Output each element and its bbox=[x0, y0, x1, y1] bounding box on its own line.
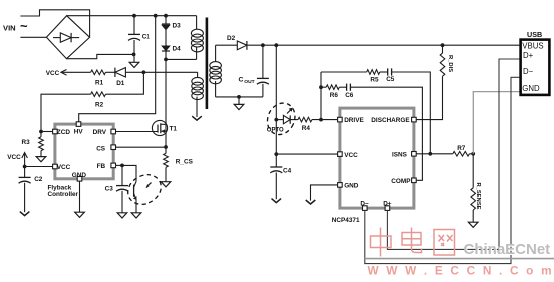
node secondary ground junction bbox=[237, 95, 241, 99]
wire drain vertical bbox=[165, 59, 167, 147]
svg-text:ChinaECNet: ChinaECNet bbox=[464, 241, 551, 258]
svg-text:C4: C4 bbox=[283, 167, 292, 174]
ground under R3 bbox=[40, 151, 42, 157]
node DRIVE junction bbox=[319, 118, 323, 122]
svg-text:FB: FB bbox=[97, 163, 106, 170]
transformer auxiliary winding bbox=[192, 77, 204, 85]
ground under R_SENSE bbox=[472, 210, 474, 222]
ground under R_CS bbox=[165, 167, 167, 181]
node D1/R2/aux junction bbox=[142, 70, 146, 74]
svg-text:CS: CS bbox=[96, 145, 106, 152]
wire aux bottom lead bbox=[196, 97, 198, 117]
op-amp U2 NCP4371 box bbox=[340, 108, 414, 208]
svg-text:DRV: DRV bbox=[93, 129, 107, 136]
resistor R3 bbox=[40, 132, 42, 137]
node C4 junction bbox=[274, 152, 278, 156]
capacitor C2 bbox=[24, 167, 26, 178]
resistor R_SENSE bbox=[472, 154, 474, 188]
svg-text:ISNS: ISNS bbox=[392, 152, 408, 159]
wire R4 to DRIVE bbox=[312, 119, 338, 121]
svg-text:R1: R1 bbox=[95, 80, 104, 87]
wire DRV to T1 gate bbox=[116, 131, 159, 133]
wire ISNS to R7 bbox=[416, 153, 453, 155]
ground arrow under C2 bbox=[20, 212, 30, 216]
svg-text:VCC: VCC bbox=[57, 164, 71, 171]
wire opto/VCC vertical bbox=[275, 45, 277, 167]
node top rail junction HV bbox=[154, 14, 158, 18]
wire DISCHARGE to R_DIS bbox=[416, 76, 442, 119]
capacitor C_OUT bbox=[261, 43, 265, 47]
svg-text:C6: C6 bbox=[345, 92, 354, 99]
svg-text:C3: C3 bbox=[105, 186, 114, 193]
svg-text:VCC: VCC bbox=[46, 70, 60, 77]
pin VCC NCP bbox=[338, 152, 343, 157]
svg-text:GND: GND bbox=[72, 172, 87, 179]
wire FB to C3 and opto bbox=[116, 164, 123, 166]
svg-text:C5: C5 bbox=[386, 76, 395, 83]
pin D- NCP bbox=[363, 206, 368, 211]
node ISNS/C5 junction bbox=[428, 152, 432, 156]
bridge rectifier internal diode bbox=[53, 37, 60, 39]
ground under flyback GND bbox=[79, 181, 81, 212]
svg-text:R3: R3 bbox=[22, 139, 31, 146]
svg-text:NCP4371: NCP4371 bbox=[332, 217, 360, 224]
pin VCC flyback bbox=[53, 164, 58, 169]
svg-text:R7: R7 bbox=[457, 145, 466, 152]
resistor R5 bbox=[321, 71, 367, 73]
resistor R2 bbox=[91, 92, 106, 97]
node ZCD junction bbox=[39, 130, 43, 134]
svg-text:DISCHARGE: DISCHARGE bbox=[371, 117, 410, 124]
svg-text:USB: USB bbox=[527, 30, 542, 39]
pin ISNS bbox=[412, 152, 417, 157]
svg-text:C: C bbox=[239, 76, 244, 83]
pin ZCD bbox=[53, 129, 58, 134]
pin HV bbox=[76, 122, 81, 127]
opto light arrow bbox=[146, 183, 151, 188]
svg-text:OUT: OUT bbox=[244, 79, 254, 85]
capacitor C6 bbox=[339, 86, 346, 88]
svg-text:VCC: VCC bbox=[7, 154, 21, 161]
pin DRIVE bbox=[338, 117, 343, 122]
node R7/R_SENSE/USBGND junction bbox=[471, 152, 475, 156]
wire C5 to ISNS bbox=[392, 72, 431, 154]
wire USB GND return bbox=[473, 92, 519, 154]
capacitor C3 bbox=[121, 165, 123, 185]
wire gray frame line bottom bbox=[365, 258, 554, 260]
svg-text:D−: D− bbox=[360, 200, 369, 207]
svg-text:D1: D1 bbox=[116, 80, 125, 87]
resistor R7 bbox=[453, 152, 470, 157]
resistor R6 bbox=[321, 86, 326, 88]
node FB junction bbox=[120, 164, 124, 168]
watermark character dian bbox=[402, 228, 422, 253]
svg-text:R_DIS: R_DIS bbox=[447, 55, 453, 72]
svg-text:COMP: COMP bbox=[391, 178, 411, 185]
diode D1 bbox=[114, 68, 116, 77]
svg-text:C2: C2 bbox=[34, 176, 43, 183]
diode D3 bbox=[165, 16, 167, 24]
svg-text:GND: GND bbox=[522, 84, 540, 93]
resistor R4 bbox=[298, 117, 312, 122]
svg-text:R5: R5 bbox=[370, 77, 379, 84]
pin COMP bbox=[412, 178, 417, 183]
pin DISCHARGE bbox=[412, 117, 417, 122]
node VBUS R_DIS junction bbox=[441, 43, 445, 47]
wire VCC pin to C2 node bbox=[25, 166, 53, 168]
svg-text:D−: D− bbox=[523, 67, 534, 76]
ground arrow under C4 bbox=[272, 199, 282, 203]
wire feedback vertical R5/R6 bbox=[320, 72, 322, 120]
node R6 junction bbox=[319, 85, 323, 89]
svg-text:VBUS: VBUS bbox=[522, 42, 543, 51]
svg-text:W W W . E C C N . C o m: W W W . E C C N . C o m bbox=[368, 263, 554, 277]
node top rail junction D3 bbox=[164, 14, 168, 18]
ground under secondary bbox=[238, 97, 240, 105]
node top rail junction C1 bbox=[132, 14, 136, 18]
svg-text:R2: R2 bbox=[95, 102, 104, 109]
svg-text:VIN: VIN bbox=[3, 24, 16, 33]
svg-text:DRIVE: DRIVE bbox=[344, 117, 364, 124]
wire D+ net bbox=[387, 59, 519, 249]
svg-text:D3: D3 bbox=[173, 23, 182, 30]
node CS/source junction bbox=[164, 145, 168, 149]
svg-text:GND: GND bbox=[344, 183, 359, 190]
node C1 bottom junction bbox=[132, 53, 136, 57]
svg-text:C1: C1 bbox=[142, 34, 151, 41]
svg-text:R6: R6 bbox=[330, 92, 339, 99]
transistor T1 bbox=[152, 120, 167, 135]
svg-text:HV: HV bbox=[74, 129, 84, 136]
pin DRV bbox=[111, 129, 116, 134]
watermark character wang bbox=[434, 230, 455, 256]
resistor R_CS bbox=[165, 147, 167, 153]
resistor R1 bbox=[91, 70, 106, 75]
diode D2 bbox=[216, 44, 238, 46]
wire HV net bbox=[79, 16, 156, 122]
svg-text:~: ~ bbox=[20, 19, 28, 34]
svg-text:D2: D2 bbox=[227, 35, 236, 42]
svg-text:R_SENSE: R_SENSE bbox=[475, 183, 481, 210]
wire output rail to USB VBUS bbox=[247, 44, 520, 46]
wire NCP GND to ground bbox=[311, 185, 338, 201]
svg-text:VCC: VCC bbox=[344, 152, 358, 159]
ground arrow under aux winding bbox=[192, 116, 202, 120]
opto LED dashed ellipse bbox=[263, 99, 300, 139]
opto phototransistor Q_opto bbox=[122, 169, 166, 210]
wire secondary bottom rail bbox=[216, 96, 263, 98]
ground arrow under NCP GND bbox=[306, 200, 316, 204]
transformer core bbox=[206, 18, 209, 110]
pin GND NCP bbox=[338, 183, 343, 188]
ground under opto emitter bbox=[131, 213, 141, 218]
resistor R_DIS bbox=[440, 53, 445, 76]
pin CS bbox=[111, 145, 116, 150]
pin D+ NCP bbox=[385, 206, 390, 211]
node D4 drain junction bbox=[164, 58, 168, 62]
svg-text:ZCD: ZCD bbox=[57, 129, 71, 136]
wire VCC to R1 bbox=[62, 71, 91, 73]
svg-text:D+: D+ bbox=[383, 200, 392, 207]
ground under C3 bbox=[117, 213, 127, 218]
watermark character zhong bbox=[371, 228, 392, 257]
wire DC+ top rail bbox=[67, 15, 197, 17]
wire VIN lower lead bbox=[20, 36, 46, 38]
USB connector J1 bbox=[521, 40, 550, 95]
wire D- net bbox=[365, 77, 520, 263]
wire D4 junction to primary bottom bbox=[166, 58, 197, 60]
transformer T primary winding bbox=[196, 16, 198, 30]
node output rail opto tap bbox=[274, 43, 278, 47]
wire R2 to ZCD bbox=[41, 94, 91, 131]
capacitor C5 bbox=[380, 71, 388, 73]
node VCC/C2 junction bbox=[23, 165, 27, 169]
pin FB bbox=[111, 163, 116, 168]
svg-text:D+: D+ bbox=[523, 51, 534, 60]
svg-text:D4: D4 bbox=[173, 46, 182, 53]
ground under C1 bbox=[133, 54, 135, 62]
op-amp U1 flyback controller box bbox=[55, 124, 113, 179]
wire NCP VCC to C4 node bbox=[276, 153, 337, 155]
wire aux top to D1/R2 node bbox=[143, 71, 197, 73]
svg-text:T1: T1 bbox=[170, 126, 178, 133]
wire junction down to R2 bbox=[106, 72, 144, 94]
wire R1 to D1 bbox=[106, 71, 115, 73]
opto LED diode bbox=[276, 119, 283, 121]
bridge rectifier BR1 diamond bbox=[46, 16, 89, 59]
svg-text:R_CS: R_CS bbox=[176, 159, 194, 166]
svg-text:R4: R4 bbox=[302, 125, 311, 132]
wire C6 to COMP bbox=[350, 87, 422, 180]
svg-text:Controller: Controller bbox=[48, 191, 79, 198]
pin GND flyback bbox=[77, 177, 82, 182]
capacitor C1 bbox=[133, 16, 135, 35]
wire VIN upper lead with jog bbox=[20, 10, 89, 38]
opto LED light arrows bbox=[287, 108, 292, 113]
transformer secondary winding bbox=[210, 62, 222, 70]
capacitor C4 bbox=[270, 166, 282, 168]
wire CS bbox=[116, 146, 167, 148]
wire bridge negative to C1 bbox=[67, 54, 134, 58]
node opto LED junction bbox=[274, 118, 278, 122]
diode D4 bbox=[162, 46, 170, 51]
